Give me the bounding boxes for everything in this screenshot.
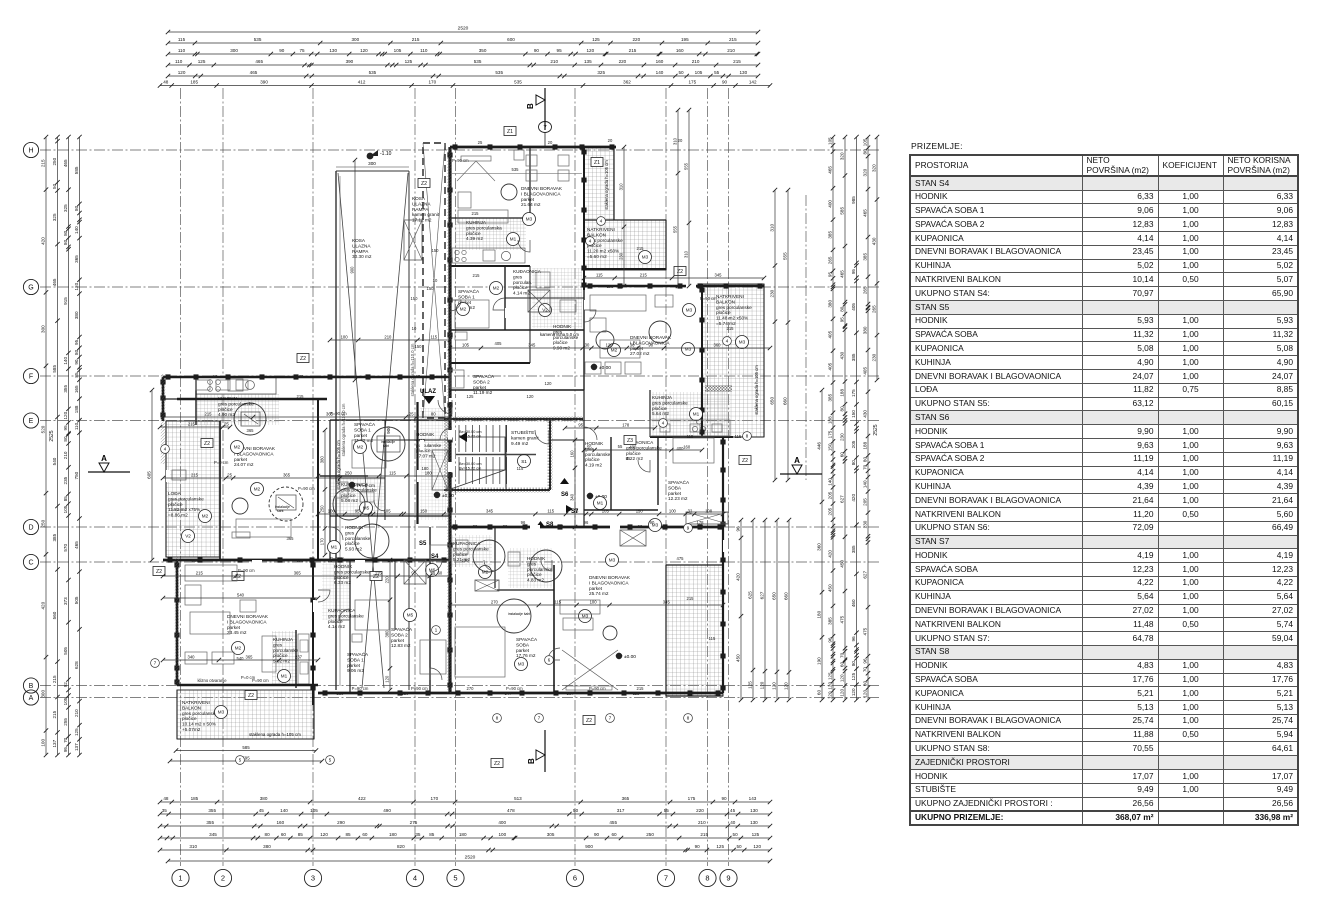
svg-text:385: 385 [52, 533, 57, 541]
svg-text:380: 380 [74, 311, 79, 319]
svg-text:215: 215 [729, 37, 737, 42]
svg-text:B: B [29, 683, 34, 690]
svg-text:420: 420 [827, 550, 832, 558]
svg-text:115: 115 [596, 273, 603, 278]
ramp outline [335, 171, 337, 690]
svg-text:2525: 2525 [873, 424, 879, 435]
svg-text:gres porculanske: gres porculanske [453, 546, 489, 551]
svg-text:2525: 2525 [49, 430, 55, 441]
svg-text:NATKRIVENI: NATKRIVENI [587, 227, 615, 232]
svg-text:210: 210 [698, 820, 706, 825]
svg-text:10.14 m2 x 50%: 10.14 m2 x 50% [182, 722, 216, 727]
svg-text:Z2: Z2 [494, 761, 500, 767]
svg-text:178: 178 [622, 423, 630, 428]
svg-text:362: 362 [623, 80, 631, 85]
svg-text:45: 45 [730, 808, 736, 813]
svg-text:12.83 m2: 12.83 m2 [391, 643, 411, 648]
svg-text:355: 355 [208, 808, 216, 813]
svg-text:120: 120 [545, 381, 553, 386]
svg-text:115: 115 [557, 524, 564, 529]
svg-text:535: 535 [512, 167, 520, 172]
svg-text:175: 175 [827, 430, 832, 438]
hatch balcony S6 top strip [584, 147, 614, 220]
svg-text:310: 310 [618, 183, 623, 191]
svg-text:188: 188 [827, 416, 832, 424]
svg-text:48: 48 [163, 80, 169, 85]
svg-text:365: 365 [287, 536, 295, 541]
svg-text:140: 140 [74, 226, 79, 234]
svg-text:150: 150 [427, 286, 435, 291]
svg-text:365: 365 [326, 412, 334, 417]
svg-text:125: 125 [467, 394, 475, 399]
svg-text:150: 150 [827, 443, 832, 451]
svg-text:6.33 m2: 6.33 m2 [334, 580, 351, 585]
svg-text:gres porculanske: gres porculanske [182, 711, 218, 716]
svg-text:570: 570 [63, 544, 68, 552]
svg-text:21.64 m2: 21.64 m2 [521, 202, 541, 207]
svg-text:M1: M1 [597, 501, 604, 506]
svg-text:30: 30 [585, 343, 590, 348]
svg-text:120: 120 [827, 682, 832, 690]
svg-text:M1: M1 [510, 237, 517, 242]
svg-text:446: 446 [816, 442, 821, 450]
svg-text:95: 95 [557, 48, 563, 53]
door gaps [166, 284, 727, 612]
svg-text:380: 380 [260, 796, 268, 801]
svg-text:137: 137 [52, 739, 57, 747]
svg-text:Z2: Z2 [586, 718, 592, 724]
svg-text:pločice: pločice [527, 572, 542, 577]
svg-text:450: 450 [827, 584, 832, 592]
svg-text:120: 120 [63, 411, 68, 419]
svg-text:parket: parket [347, 663, 361, 668]
svg-text:210: 210 [63, 451, 68, 459]
svg-text:95: 95 [827, 272, 832, 278]
svg-text:P=90 cm: P=90 cm [700, 296, 717, 301]
terrace X decor S8 [562, 650, 618, 690]
svg-text:90: 90 [594, 832, 600, 837]
svg-text:SPAVAĆA: SPAVAĆA [458, 288, 480, 294]
hatch kitchen S7 [652, 392, 730, 437]
svg-text:465: 465 [862, 209, 867, 217]
svg-text:400: 400 [498, 820, 506, 825]
svg-text:I BLAGOVAONICA: I BLAGOVAONICA [589, 580, 629, 585]
svg-text:Bv=15.72 cm: Bv=15.72 cm [459, 466, 481, 470]
svg-text:600: 600 [507, 37, 515, 42]
svg-text:HODNIK: HODNIK [553, 324, 572, 329]
svg-text:130: 130 [750, 808, 758, 813]
svg-text:E: E [29, 418, 34, 425]
svg-text:325: 325 [597, 70, 605, 75]
svg-text:627: 627 [759, 591, 764, 599]
svg-text:915: 915 [63, 297, 68, 305]
svg-text:HODNIK: HODNIK [527, 556, 546, 561]
svg-text:80: 80 [862, 149, 867, 155]
svg-text:210: 210 [384, 335, 392, 340]
svg-text:M2: M2 [202, 514, 209, 519]
svg-text:Z3: Z3 [627, 438, 633, 444]
svg-text:540: 540 [237, 593, 245, 598]
svg-text:120: 120 [360, 48, 368, 53]
svg-text:345: 345 [209, 832, 217, 837]
svg-text:M2: M2 [460, 307, 467, 312]
svg-text:365: 365 [192, 558, 200, 563]
svg-text:130: 130 [750, 820, 758, 825]
svg-text:220: 220 [696, 808, 704, 813]
svg-text:100: 100 [328, 509, 336, 514]
svg-text:25: 25 [416, 374, 421, 379]
svg-text:125: 125 [851, 672, 856, 680]
svg-text:SPAVAĆA: SPAVAĆA [516, 636, 538, 642]
svg-text:505: 505 [63, 647, 68, 655]
svg-text:985: 985 [851, 196, 856, 204]
svg-text:310: 310 [189, 844, 197, 849]
svg-text:-1.10: -1.10 [380, 151, 392, 157]
svg-text:345: 345 [715, 273, 723, 278]
svg-text:55: 55 [618, 444, 623, 449]
svg-text:G: G [28, 285, 33, 292]
section marker B bottom [536, 750, 545, 760]
svg-text:SPAVAĆA: SPAVAĆA [391, 626, 413, 632]
svg-text:staklena ograda h=105 cm: staklena ograda h=105 cm [604, 160, 609, 210]
svg-text:105: 105 [827, 137, 832, 145]
svg-text:215: 215 [297, 394, 305, 399]
svg-text:125: 125 [716, 844, 724, 849]
svg-text:150: 150 [415, 344, 423, 349]
dimension rows bottom [160, 801, 770, 803]
svg-text:parket: parket [354, 433, 368, 438]
svg-text:A: A [29, 695, 34, 702]
svg-text:25: 25 [409, 412, 414, 417]
svg-text:2520: 2520 [458, 26, 469, 32]
svg-text:SOBA: SOBA [516, 642, 530, 647]
svg-text:390: 390 [346, 59, 354, 64]
svg-text:210: 210 [550, 59, 558, 64]
svg-text:DNEVNI BORAVAK: DNEVNI BORAVAK [227, 614, 269, 619]
svg-text:80: 80 [74, 349, 79, 355]
svg-text:143: 143 [749, 796, 757, 801]
svg-text:D: D [28, 525, 33, 532]
svg-text:215: 215 [191, 473, 199, 478]
svg-text:25.74 m2: 25.74 m2 [589, 591, 609, 596]
hatch kitchen S5 tiles [196, 394, 279, 425]
svg-text:290: 290 [337, 820, 345, 825]
svg-text:195: 195 [681, 37, 689, 42]
svg-text:100: 100 [669, 509, 677, 514]
svg-text:265: 265 [871, 305, 876, 313]
svg-text:115: 115 [633, 691, 640, 696]
svg-text:20: 20 [678, 138, 683, 143]
svg-text:422: 422 [358, 796, 366, 801]
svg-text:365: 365 [246, 655, 254, 660]
svg-text:365: 365 [74, 255, 79, 263]
svg-text:50: 50 [573, 808, 579, 813]
svg-text:95: 95 [63, 425, 68, 431]
svg-text:20: 20 [608, 138, 613, 143]
svg-text:M3: M3 [609, 558, 616, 563]
svg-text:96: 96 [735, 526, 740, 532]
svg-text:55: 55 [664, 808, 670, 813]
svg-text:pločice: pločice [345, 541, 360, 546]
svg-text:M1: M1 [281, 674, 288, 679]
svg-text:125: 125 [752, 832, 760, 837]
svg-text:215: 215 [412, 37, 420, 42]
svg-text:360: 360 [816, 543, 821, 551]
svg-text:80: 80 [431, 412, 436, 417]
svg-text:325: 325 [52, 213, 57, 221]
svg-text:535: 535 [514, 80, 522, 85]
svg-text:STUBIŠTE: STUBIŠTE [511, 429, 534, 436]
svg-text:120: 120 [384, 675, 389, 683]
svg-text:120: 120 [74, 282, 79, 290]
hatch balcony S7 right [702, 284, 764, 437]
svg-text:210: 210 [74, 709, 79, 717]
hatch loggia S5 [166, 421, 220, 557]
svg-text:320: 320 [871, 164, 876, 172]
svg-text:60: 60 [816, 690, 821, 696]
svg-text:650: 650 [769, 397, 774, 405]
svg-text:215: 215 [473, 273, 481, 278]
svg-text:405: 405 [827, 330, 832, 338]
svg-text:105: 105 [695, 70, 703, 75]
svg-text:115: 115 [178, 37, 186, 42]
svg-text:555: 555 [782, 252, 787, 260]
svg-text:55: 55 [587, 445, 592, 450]
svg-text:188: 188 [862, 441, 867, 449]
svg-text:96: 96 [827, 637, 832, 643]
svg-text:gres porculanske: gres porculanske [334, 569, 370, 574]
svg-text:180: 180 [425, 471, 433, 476]
svg-text:85: 85 [63, 496, 68, 502]
svg-text:M2: M2 [235, 646, 242, 651]
svg-text:150: 150 [636, 509, 644, 514]
svg-text:60: 60 [611, 832, 617, 837]
svg-text:105: 105 [462, 343, 470, 348]
svg-text:125: 125 [405, 59, 413, 64]
svg-text:535: 535 [369, 70, 377, 75]
svg-text:150: 150 [851, 410, 856, 418]
hatch balcony S4 bottom left [177, 690, 314, 739]
svg-text:klizno otvaranje: klizno otvaranje [197, 678, 227, 683]
svg-text:120: 120 [606, 343, 614, 348]
svg-text:310: 310 [769, 224, 774, 232]
svg-text:340: 340 [569, 493, 574, 501]
svg-text:160: 160 [569, 450, 574, 458]
svg-text:gres porculanska: gres porculanska [466, 225, 502, 230]
svg-text:215: 215 [472, 211, 480, 216]
svg-text:SOBA 2: SOBA 2 [473, 379, 490, 384]
svg-text:Bv=15.72 cm: Bv=15.72 cm [459, 434, 481, 438]
svg-text:pločice: pločice [585, 457, 600, 462]
stair wall checker [444, 417, 583, 422]
svg-text:pločice: pločice [513, 285, 528, 290]
svg-text:115: 115 [697, 524, 704, 529]
svg-text:SPAVAĆA: SPAVAĆA [354, 421, 376, 427]
grid bubbles numbers [172, 869, 189, 886]
svg-text:420: 420 [735, 573, 740, 581]
svg-text:70: 70 [839, 652, 844, 658]
svg-text:70: 70 [862, 667, 867, 673]
hatch kitchen S6 top [455, 218, 526, 250]
svg-text:160: 160 [656, 59, 664, 64]
wall hatch strips [447, 147, 452, 693]
svg-text:SOBA 2: SOBA 2 [391, 632, 408, 637]
svg-text:210: 210 [727, 48, 735, 53]
svg-text:DNEVNI BORAVAK: DNEVNI BORAVAK [521, 186, 563, 191]
svg-text:kamena vuna 5.0 cm: kamena vuna 5.0 cm [540, 332, 579, 337]
svg-text:140: 140 [63, 357, 68, 365]
svg-text:230: 230 [862, 520, 867, 528]
svg-text:pločice: pločice [553, 340, 568, 345]
svg-text:parket: parket [589, 586, 603, 591]
svg-text:180: 180 [816, 610, 821, 618]
svg-text:150: 150 [411, 296, 419, 301]
svg-text:25: 25 [478, 140, 483, 145]
svg-text:M3: M3 [739, 340, 746, 345]
svg-text:165: 165 [74, 385, 79, 393]
svg-text:90: 90 [74, 359, 79, 365]
svg-text:820: 820 [397, 844, 405, 849]
svg-text:HODNIK: HODNIK [416, 432, 435, 437]
svg-text:P=0 cm: P=0 cm [241, 675, 256, 680]
hatch balcony S8 bottom right [666, 565, 723, 696]
svg-text:585: 585 [839, 207, 844, 215]
svg-text:50: 50 [678, 70, 684, 75]
svg-text:150: 150 [432, 248, 440, 253]
svg-text:KUHINJA: KUHINJA [218, 396, 239, 401]
svg-text:585: 585 [52, 365, 57, 373]
door swing arcs [318, 240, 650, 680]
svg-text:parket: parket [668, 491, 682, 496]
svg-text:400: 400 [629, 445, 637, 450]
svg-text:75: 75 [574, 509, 579, 514]
svg-text:115: 115 [735, 434, 742, 439]
svg-text:175: 175 [688, 80, 696, 85]
svg-text:535: 535 [495, 70, 503, 75]
svg-text:11.19 m2: 11.19 m2 [473, 390, 493, 395]
svg-text:F: F [29, 374, 33, 381]
svg-text:430: 430 [862, 410, 867, 418]
svg-text:porculanske: porculanske [416, 443, 442, 448]
svg-text:400: 400 [677, 446, 685, 451]
svg-text:M2: M2 [493, 286, 500, 291]
svg-text:4: 4 [413, 874, 417, 883]
svg-text:265: 265 [827, 256, 832, 264]
svg-text:210: 210 [692, 59, 700, 64]
svg-text:120: 120 [771, 682, 776, 690]
svg-text:gres: gres [527, 561, 537, 566]
svg-text:300: 300 [230, 48, 238, 53]
svg-text:475: 475 [839, 615, 844, 623]
svg-text:DNEVNI BORAVAK: DNEVNI BORAVAK [589, 575, 631, 580]
svg-text:115: 115 [554, 600, 561, 605]
svg-text:M1: M1 [331, 545, 338, 550]
svg-text:310: 310 [672, 137, 677, 145]
svg-text:120: 120 [402, 691, 410, 696]
svg-text:270: 270 [491, 600, 499, 605]
svg-text:=5.60 m2: =5.60 m2 [587, 254, 607, 259]
svg-text:100: 100 [590, 600, 598, 605]
svg-text:478: 478 [507, 808, 515, 813]
hatch kitchen S4 [272, 631, 297, 684]
svg-text:parket: parket [473, 385, 487, 390]
svg-text:300: 300 [40, 690, 45, 698]
svg-text:115: 115 [687, 434, 694, 439]
svg-text:420: 420 [851, 494, 856, 502]
svg-text:320: 320 [839, 152, 844, 160]
svg-text:Be=30.00 cm: Be=30.00 cm [459, 462, 481, 466]
svg-text:120: 120 [178, 70, 186, 75]
svg-text:300: 300 [351, 37, 359, 42]
svg-text:120: 120 [839, 674, 844, 682]
hatch bath S8 [508, 548, 552, 588]
svg-text:345: 345 [528, 343, 536, 348]
svg-text:465: 465 [63, 159, 68, 167]
svg-text:SOBA 1: SOBA 1 [458, 294, 475, 299]
M fixture circles [507, 233, 520, 246]
level flag -1.10 [367, 153, 374, 160]
svg-text:465: 465 [827, 166, 832, 174]
svg-text:pločice: pločice [341, 493, 356, 498]
svg-text:120: 120 [783, 682, 788, 690]
svg-text:gres: gres [345, 530, 355, 535]
svg-text:385: 385 [851, 353, 856, 361]
svg-text:SOBA 1: SOBA 1 [347, 657, 364, 662]
svg-text:115: 115 [607, 284, 614, 289]
svg-text:215: 215 [637, 246, 645, 251]
svg-text:Z2: Z2 [300, 356, 306, 362]
area table [909, 141, 1298, 826]
svg-text:215: 215 [188, 422, 196, 427]
svg-text:105: 105 [63, 697, 68, 705]
svg-text:12.23 m2: 12.23 m2 [668, 496, 688, 501]
svg-text:40: 40 [730, 820, 736, 825]
svg-text:130: 130 [329, 48, 337, 53]
svg-text:9.49 m2: 9.49 m2 [511, 441, 529, 447]
svg-text:110: 110 [175, 59, 183, 64]
svg-text:320: 320 [862, 168, 867, 176]
svg-text:180: 180 [422, 466, 430, 471]
hatch bath S6 [532, 268, 582, 328]
svg-text:96: 96 [851, 636, 856, 642]
svg-text:60: 60 [839, 452, 844, 458]
svg-text:M3: M3 [526, 217, 533, 222]
svg-text:490: 490 [383, 808, 391, 813]
svg-text:628: 628 [74, 661, 79, 669]
svg-text:Pr=0 cm: Pr=0 cm [357, 483, 375, 489]
svg-text:V2: V2 [185, 534, 191, 539]
svg-text:188: 188 [74, 405, 79, 413]
svg-text:120: 120 [759, 681, 764, 689]
svg-text:RAMPA: RAMPA [412, 207, 429, 212]
svg-text:60: 60 [362, 832, 368, 837]
svg-text:92: 92 [63, 682, 68, 688]
interior dimension rows [450, 347, 770, 349]
svg-text:142: 142 [749, 80, 757, 85]
svg-text:310: 310 [683, 250, 688, 258]
svg-text:105: 105 [63, 505, 68, 513]
svg-text:KUHINJA: KUHINJA [466, 220, 487, 225]
svg-text:120: 120 [389, 558, 397, 563]
svg-text:380: 380 [263, 844, 271, 849]
svg-text:125: 125 [747, 681, 752, 689]
svg-text:215: 215 [687, 596, 695, 601]
svg-text:220: 220 [384, 576, 389, 584]
svg-text:M5: M5 [407, 613, 414, 618]
svg-text:450: 450 [735, 654, 740, 662]
svg-text:35: 35 [415, 832, 421, 837]
svg-text:540: 540 [52, 457, 57, 465]
